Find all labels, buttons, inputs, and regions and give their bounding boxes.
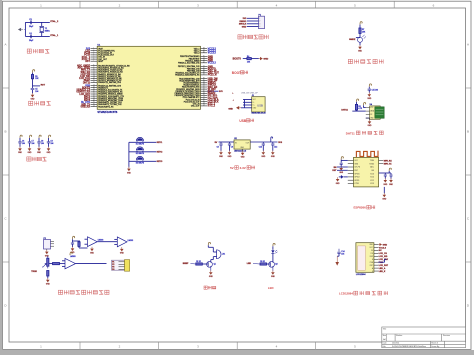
svg-text:TXD0: TXD0 [370, 160, 374, 162]
capacitor C18 [390, 173, 392, 174]
svg-text:LCD12864: LCD12864 [339, 292, 353, 296]
svg-text:BOOT: BOOT [232, 71, 241, 75]
svg-text:KEY1: KEY1 [157, 142, 163, 144]
ground [271, 270, 276, 278]
wire [32, 90, 34, 94]
antenna meander [356, 151, 378, 158]
svg-text:RTC_2: RTC_2 [208, 106, 216, 108]
ground [241, 151, 246, 159]
wire PSB tie [378, 261, 384, 263]
svg-text:27: 27 [203, 96, 205, 98]
wire [359, 42, 361, 45]
svg-text:RST: RST [370, 265, 373, 267]
ground [18, 147, 23, 155]
svg-text:21: 21 [93, 93, 95, 95]
connector J2 LCD body [356, 243, 374, 273]
capacitor C14 [338, 249, 340, 252]
svg-text:1: 1 [93, 47, 94, 49]
wire [247, 20, 259, 22]
svg-text:R/W: R/W [370, 256, 374, 258]
label buzzer [204, 286, 216, 289]
svg-text:SWDIO: SWDIO [239, 21, 246, 23]
label photoresistor module [348, 59, 383, 63]
svg-text:LCD_CLK: LCD_CLK [379, 259, 389, 261]
ground [335, 256, 339, 265]
op-amp U1 MCU body [97, 46, 200, 109]
capacitor C6 [18, 142, 21, 143]
svg-text:45: 45 [203, 55, 205, 57]
power port VCC [273, 243, 275, 246]
label filter circuit [27, 157, 47, 161]
title block outline [382, 327, 466, 348]
svg-text:31: 31 [203, 88, 205, 90]
svg-text:23: 23 [93, 97, 95, 99]
svg-text:XTAL_1: XTAL_1 [50, 34, 59, 37]
svg-text:7: 7 [93, 60, 94, 62]
svg-text:C9: C9 [231, 147, 233, 149]
desktop grey strip bottom [0, 350, 474, 355]
svg-text:IO14: IO14 [370, 177, 374, 179]
ground [383, 178, 388, 186]
svg-text:25: 25 [93, 101, 95, 103]
label reset circuit [29, 101, 51, 105]
svg-text:104: 104 [41, 143, 44, 145]
svg-text:2021/6/4: 2021/6/4 [392, 343, 399, 345]
svg-text:104: 104 [51, 143, 54, 145]
ground [219, 150, 224, 158]
svg-text:P4: P4 [112, 268, 114, 271]
svg-text:GPIO0: GPIO0 [354, 173, 359, 175]
wire [207, 90, 218, 92]
svg-text:VCC3.3: VCC3.3 [208, 53, 217, 55]
ground [228, 150, 233, 158]
svg-text:Revision: Revision [443, 335, 450, 337]
svg-text:USB_RX: USB_RX [81, 106, 91, 108]
svg-text:44: 44 [203, 57, 205, 59]
power port VCC [357, 99, 359, 102]
svg-text:LS1: LS1 [222, 254, 225, 256]
buzzer LS1 [217, 250, 221, 259]
svg-text:Q2: Q2 [275, 264, 277, 266]
svg-text:8MHz: 8MHz [45, 31, 50, 33]
svg-text:RST: RST [354, 170, 357, 172]
svg-text:C13: C13 [274, 147, 277, 149]
svg-text:24: 24 [93, 99, 95, 101]
ground [271, 150, 276, 158]
push button S2 [136, 147, 143, 152]
ground [47, 147, 52, 155]
wire [359, 33, 361, 37]
ESP right pins top [379, 159, 383, 161]
svg-text:LCD_CS: LCD_CS [379, 253, 388, 255]
svg-text:VDD_3: VDD_3 [194, 53, 200, 55]
ground [382, 193, 387, 201]
wire [242, 149, 244, 152]
svg-text:43: 43 [203, 60, 205, 62]
svg-text:40: 40 [203, 67, 205, 69]
wire [212, 257, 214, 260]
wire [207, 245, 209, 247]
capacitor C8 [220, 142, 222, 143]
svg-text:BEEP: BEEP [183, 263, 189, 265]
wire [24, 29, 27, 31]
svg-text:USB_DM USB_DP: USB_DM USB_DP [241, 92, 259, 94]
wire [128, 166, 130, 169]
LED D2 [271, 250, 274, 253]
capacitor C7 [28, 142, 31, 143]
wire [29, 138, 31, 141]
resistor R1 [31, 75, 33, 79]
svg-text:22: 22 [93, 95, 95, 97]
svg-text:VCC3.3: VCC3.3 [208, 63, 217, 65]
wire [247, 17, 259, 19]
svg-text:6: 6 [93, 58, 94, 60]
svg-text:LED_A: LED_A [379, 267, 386, 270]
svg-text:35: 35 [203, 80, 205, 82]
svg-text:13: 13 [93, 75, 95, 77]
svg-text:LCD_SID: LCD_SID [379, 256, 388, 258]
svg-text:GMDZ: GMDZ [349, 39, 356, 41]
svg-text:B: B [4, 130, 6, 134]
power port VCC [360, 22, 362, 25]
svg-text:29: 29 [203, 92, 205, 94]
wire [19, 143, 21, 147]
wire [247, 26, 259, 28]
LCD pins [374, 244, 378, 246]
svg-text:KEY3: KEY3 [157, 161, 163, 163]
power port VCC [70, 252, 72, 255]
ground [358, 45, 363, 53]
resistor R10 [78, 242, 80, 247]
svg-text:IO12: IO12 [370, 180, 374, 182]
svg-text:USB: USB [257, 103, 263, 107]
wire [29, 143, 31, 147]
svg-text:S2 SW-PB: S2 SW-PB [136, 153, 145, 155]
svg-text:GND: GND [263, 59, 268, 61]
ground [367, 92, 372, 100]
power port VCC (filter 1) [20, 135, 22, 138]
power port VCC [208, 242, 210, 245]
wire [340, 164, 342, 166]
wire [129, 141, 156, 143]
svg-text:24: 24 [203, 103, 205, 105]
wire key bus [128, 142, 130, 167]
wire [47, 276, 49, 278]
svg-text:4: 4 [93, 54, 94, 56]
svg-text:Sheet of: Sheet of [431, 342, 438, 345]
photoresistor RG1 [358, 37, 363, 42]
ground [378, 243, 382, 246]
svg-text:VCC3.3: VCC3.3 [379, 247, 387, 249]
MCU right pins [201, 48, 208, 50]
svg-text:104: 104 [341, 254, 344, 256]
svg-text:USB: USB [239, 119, 246, 123]
svg-text:104: 104 [22, 143, 25, 145]
svg-text:LED: LED [268, 286, 274, 290]
svg-text:ESP8266: ESP8266 [354, 206, 367, 210]
wire [25, 21, 49, 23]
power port VCC (filter 3) [39, 135, 41, 138]
svg-text:5V: 5V [230, 166, 234, 170]
label download circuit [238, 35, 269, 39]
op-amp U5B [117, 237, 127, 247]
wire [129, 160, 156, 162]
svg-text:PB11/I2C2_SDA/USART3_RX: PB11/I2C2_SDA/USART3_RX [175, 74, 200, 77]
svg-text:27: 27 [93, 105, 95, 107]
svg-text:10: 10 [93, 69, 95, 71]
wire [32, 79, 34, 88]
resistor R12 [47, 271, 49, 277]
svg-text:D+: D+ [253, 105, 255, 107]
wire [363, 105, 365, 107]
svg-text:4: 4 [259, 26, 260, 28]
power port VCC [369, 84, 371, 87]
svg-text:URXD: URXD [354, 180, 360, 182]
svg-text:14: 14 [93, 77, 95, 79]
capacitor C9 [47, 142, 50, 143]
desktop grey strip left [0, 0, 2, 355]
zone dividers right band [466, 87, 472, 89]
power port VCC (filter 2) [30, 135, 32, 138]
svg-text:KEY2: KEY2 [157, 152, 163, 154]
svg-text:104: 104 [35, 91, 38, 93]
svg-text:3.3V: 3.3V [240, 166, 246, 170]
wire [48, 143, 50, 147]
svg-text:23: 23 [203, 105, 205, 107]
power port GND right [259, 57, 263, 60]
svg-text:16: 16 [93, 81, 95, 83]
wire [272, 246, 274, 250]
resistor R5 [355, 104, 357, 110]
wire [60, 263, 66, 265]
ground [120, 247, 125, 255]
svg-text:RS: RS [371, 253, 373, 255]
svg-text:46: 46 [203, 52, 205, 54]
svg-text:28: 28 [203, 94, 205, 96]
svg-text:E: E [372, 259, 373, 261]
svg-text:C8: C8 [217, 147, 219, 149]
svg-text:41: 41 [203, 65, 205, 67]
power port VCC [341, 157, 343, 160]
capacitor C5 [31, 89, 35, 90]
connector P1 body [259, 16, 265, 28]
svg-text:LCD12864: LCD12864 [356, 274, 366, 276]
wire [76, 263, 107, 265]
wire [97, 241, 117, 243]
svg-text:42: 42 [203, 62, 205, 64]
svg-text:S1 SW-PB: S1 SW-PB [136, 144, 145, 146]
wire output rail [250, 141, 277, 143]
svg-text:TRSD: TRSD [31, 271, 37, 273]
svg-text:GND: GND [242, 26, 247, 28]
wire input rail [219, 141, 234, 143]
svg-text:26: 26 [203, 98, 205, 100]
svg-text:25: 25 [203, 101, 205, 103]
power port VCC (filter 4) [49, 135, 51, 138]
svg-text:LM393: LM393 [128, 240, 134, 242]
regulator U2 body [234, 140, 250, 149]
svg-text:9: 9 [93, 67, 94, 69]
svg-text:Size: Size [383, 335, 387, 337]
wire [72, 239, 74, 241]
label crystal circuit [27, 49, 49, 53]
svg-text:15: 15 [93, 79, 95, 81]
svg-text:PSB: PSB [370, 262, 373, 264]
svg-text:Date:: Date: [383, 342, 388, 345]
zone dividers left band [3, 87, 10, 89]
wire [251, 58, 258, 60]
wire [356, 110, 358, 111]
power port 3V3 [271, 137, 273, 142]
svg-text:Drawn By:: Drawn By: [431, 346, 440, 348]
wire [25, 35, 49, 37]
svg-text:IO13: IO13 [370, 183, 374, 185]
crystal Y1 [41, 22, 43, 26]
label soil moisture sensor module [58, 290, 109, 294]
wire [368, 90, 370, 92]
svg-text:B: B [467, 130, 469, 134]
capacitor C16 [340, 160, 342, 162]
svg-text:1: 1 [259, 18, 260, 20]
title block row lines [382, 333, 466, 335]
wire [244, 100, 246, 108]
potentiometer RP1 soil probe [47, 256, 49, 258]
svg-text:LED_K: LED_K [379, 271, 386, 273]
svg-text:8: 8 [93, 65, 94, 67]
capacitor C17 [384, 173, 386, 174]
svg-text:47: 47 [203, 50, 205, 52]
svg-text:Q1: Q1 [214, 264, 216, 266]
svg-text:V0: V0 [371, 250, 373, 252]
wire [32, 73, 34, 75]
svg-text:11: 11 [93, 71, 95, 73]
capacitor C12 [262, 142, 264, 143]
ground [127, 167, 132, 175]
svg-text:BOOT0: BOOT0 [233, 58, 242, 61]
wire [366, 117, 370, 119]
svg-text:3: 3 [93, 52, 94, 54]
connector P3 body [112, 260, 125, 270]
capacitor C20 [72, 241, 74, 242]
wire [337, 166, 348, 168]
svg-text:Number: Number [396, 335, 403, 337]
svg-text:33: 33 [203, 84, 205, 86]
zone dividers top band [79, 1, 81, 8]
svg-text:S3 SW-PB: S3 SW-PB [136, 163, 145, 165]
wire [78, 246, 80, 248]
svg-text:CH_PD: CH_PD [354, 167, 361, 169]
resistor R4 [247, 58, 251, 60]
svg-text:UTXD: UTXD [354, 183, 359, 185]
module U3 ESP8266 body [354, 157, 379, 187]
svg-text:48: 48 [203, 47, 205, 49]
svg-text:A: A [4, 43, 6, 47]
svg-text:5: 5 [93, 56, 94, 58]
svg-text:DHT11: DHT11 [346, 131, 355, 135]
wire [129, 151, 156, 153]
capacitor C15 [368, 89, 371, 90]
svg-text:GND: GND [383, 244, 388, 246]
ground [46, 278, 51, 286]
svg-text:2: 2 [259, 21, 260, 23]
svg-text:DHT11: DHT11 [83, 82, 91, 84]
svg-text:LM393: LM393 [70, 256, 76, 258]
svg-text:RST: RST [85, 61, 90, 63]
svg-text:38: 38 [203, 72, 205, 74]
ground [339, 166, 344, 174]
wire [247, 23, 259, 25]
svg-text:19: 19 [93, 89, 95, 91]
svg-text:PC13_N: PC13_N [208, 75, 217, 77]
transistor Q1 [207, 261, 213, 267]
svg-text:PB6/I2C1_SCL/TIM4_CH1: PB6/I2C1_SCL/TIM4_CH1 [178, 63, 199, 65]
svg-text:26: 26 [93, 103, 95, 105]
transistor Q2 [269, 261, 275, 267]
svg-text:36: 36 [203, 77, 205, 79]
wire [38, 138, 40, 141]
svg-text:20: 20 [93, 91, 95, 93]
diode D1 [344, 176, 348, 178]
power port VCC [364, 102, 366, 105]
svg-text:MiniUSB-5S-B: MiniUSB-5S-B [252, 113, 267, 115]
wire [338, 253, 340, 256]
ground [236, 106, 241, 110]
op-amp U5A [88, 237, 98, 247]
wire [356, 102, 358, 105]
svg-text:2: 2 [93, 50, 94, 52]
USB pins [243, 99, 252, 101]
svg-text:PA10/USART1_RX: PA10/USART1_RX [98, 105, 114, 108]
wire [340, 159, 342, 162]
wire [368, 87, 370, 89]
svg-text:3: 3 [259, 24, 260, 26]
svg-text:PB0/ADC12_IN8/TIM3_CH3: PB0/ADC12_IN8/TIM3_CH3 [98, 81, 121, 84]
svg-text:IO16: IO16 [370, 173, 374, 175]
wire [243, 58, 247, 60]
ground [90, 247, 95, 255]
svg-text:D:\DOC\STM32F103C8T6.SchDoc: D:\DOC\STM32F103C8T6.SchDoc [392, 346, 427, 348]
svg-text:STM32F103C8T6: STM32F103C8T6 [97, 111, 117, 114]
MCU left pins [91, 48, 98, 50]
svg-text:GND: GND [228, 108, 233, 110]
wire [19, 138, 21, 141]
svg-text:34: 34 [203, 82, 205, 84]
resistor R7 [359, 28, 361, 33]
svg-text:RXD0: RXD0 [369, 163, 374, 165]
ground [37, 147, 42, 155]
svg-text:18: 18 [93, 87, 95, 89]
ground [368, 120, 373, 128]
ESP left pins [348, 159, 354, 161]
svg-text:DHT11: DHT11 [341, 110, 348, 112]
capacitor C13 [272, 142, 274, 143]
svg-text:File:: File: [383, 346, 387, 348]
svg-text:C12: C12 [259, 147, 262, 149]
svg-text:OSC_OUT: OSC_OUT [191, 106, 201, 108]
power port VCC [73, 236, 75, 239]
resistor R11 [53, 263, 60, 265]
svg-text:104: 104 [32, 143, 35, 145]
ground [71, 247, 76, 255]
svg-text:17: 17 [93, 84, 95, 86]
ground [18, 28, 23, 32]
wire [48, 138, 50, 141]
ground [46, 249, 48, 250]
module pins [366, 107, 370, 109]
capacitor C8 [37, 142, 40, 143]
svg-text:A: A [467, 43, 469, 47]
ground [28, 147, 33, 155]
